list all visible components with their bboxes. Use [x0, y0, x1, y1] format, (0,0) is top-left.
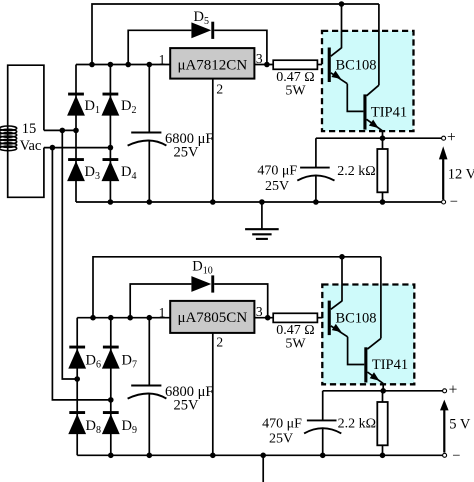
- junction D2 cathode: [108, 62, 114, 68]
- junction D2-D4 midpoint node: [108, 145, 114, 151]
- junction D9 bottom: [108, 453, 114, 459]
- svg-text:+: +: [449, 382, 458, 399]
- wire C4 bottom lead: [322, 428, 324, 456]
- pin label 3 (U1): [256, 51, 263, 66]
- junction R4 bottom: [380, 453, 386, 459]
- wire ground rail (bottom): [77, 454, 444, 456]
- label BC108 (bottom): [335, 310, 376, 326]
- capacitor C4 470uF: [304, 420, 341, 433]
- wire Q1 emitter to Q2 base: [347, 84, 363, 112]
- junction C1 top: [147, 62, 153, 68]
- capacitor C2 470uF: [297, 168, 334, 181]
- svg-text:−: −: [452, 448, 460, 464]
- junction upper tap / long vertical: [60, 128, 66, 134]
- junction lower-bridge AC input (from lower tap): [108, 397, 114, 403]
- wire long vertical to lower bridge AC input 2: [62, 130, 77, 379]
- wire transformer lower tap to bridge node: [44, 147, 111, 149]
- wire Q3 emitter to Q4 base: [348, 337, 365, 365]
- svg-text:1: 1: [159, 52, 166, 67]
- wire D4 branch: [109, 148, 111, 202]
- wire D10 left lead: [130, 284, 191, 318]
- svg-text:3: 3: [256, 304, 263, 319]
- diode D2: [102, 93, 120, 116]
- junction C3 top: [147, 315, 153, 321]
- label 6800 uF 25V: [165, 131, 213, 160]
- resistor R1 0.47 ohm 5W: [273, 60, 317, 69]
- label 6800 uF 25V (bottom): [165, 384, 213, 413]
- wire D10 right lead: [214, 284, 268, 318]
- junction C1 bottom: [147, 199, 153, 205]
- svg-text:μA7805CN: μA7805CN: [177, 310, 247, 326]
- label 15 Vac: [20, 121, 42, 154]
- pin label 1 (U2): [159, 305, 166, 320]
- label 470 uF 25V (bottom): [262, 416, 302, 446]
- resistor R3 0.47 ohm 5W: [273, 313, 317, 322]
- wire D5 left lead: [128, 30, 191, 64]
- svg-text:25V: 25V: [269, 432, 293, 447]
- label TIP41 (top): [371, 104, 407, 120]
- resistor R4 2.2 kohm: [377, 391, 387, 456]
- diode D4: [102, 158, 120, 181]
- svg-text:Vac: Vac: [20, 138, 42, 154]
- wire D8 branch: [76, 379, 78, 455]
- diode D7: [102, 346, 120, 369]
- junction ground tap: [259, 199, 265, 205]
- svg-text:470 μF: 470 μF: [262, 416, 302, 431]
- pin label 1 (U1): [159, 52, 166, 67]
- terminal - (bottom): [443, 448, 461, 464]
- wire R1 to Q1 base: [317, 64, 327, 66]
- diode D1: [67, 93, 85, 116]
- wire transformer upper tap to bridge node: [44, 129, 76, 131]
- svg-text:5 V: 5 V: [449, 416, 471, 432]
- wire long vertical to lower bridge AC input: [52, 148, 110, 400]
- junction Q4 emitter node: [380, 388, 386, 394]
- svg-text:TIP41: TIP41: [372, 357, 408, 373]
- junction C4 bottom: [320, 453, 326, 459]
- label 470 uF 25V: [257, 164, 297, 195]
- svg-text:15: 15: [22, 121, 37, 137]
- transistor Q2 TIP41 (top): [363, 4, 382, 138]
- junction D5 anode tap: [125, 62, 131, 68]
- label BC108 (top): [335, 57, 376, 73]
- label D10: [192, 258, 212, 276]
- wire U1 pin 2 ground lead: [212, 79, 214, 202]
- junction U2 pin2 / ground rail: [210, 453, 216, 459]
- junction U1 output node: [264, 62, 270, 68]
- junction D4 bottom: [108, 199, 114, 205]
- wire U1 pin 3 to R1: [254, 64, 273, 66]
- svg-text:BC108: BC108: [335, 57, 376, 73]
- wire bridge positive rail to regulator pin 1: [76, 64, 170, 66]
- wire top rail: [92, 4, 379, 65]
- label 0.47 ohm 5W: [276, 70, 314, 99]
- transformer T1 winding coil: [0, 126, 17, 151]
- label 2.2 kohm (bottom): [338, 416, 376, 431]
- label TIP41 (bottom): [372, 357, 408, 373]
- svg-text:+: +: [447, 129, 456, 146]
- pin label 2 (U2): [216, 334, 223, 349]
- junction lower-bridge AC input (from upper tap): [74, 376, 80, 382]
- junction U1 pin2 / ground rail: [210, 199, 216, 205]
- svg-text:2: 2: [216, 334, 223, 349]
- junction lower tap / long vertical: [50, 145, 56, 151]
- transformer T1 secondary loop wire: [8, 65, 44, 197]
- regulator U2 uA7805CN: [170, 301, 254, 333]
- pin label 2 (U1): [216, 82, 223, 97]
- svg-text:25V: 25V: [174, 397, 200, 413]
- wire ground stub (bottom): [262, 455, 264, 482]
- svg-text:−: −: [450, 194, 458, 210]
- label D5: [194, 9, 209, 27]
- wire output rail (top): [316, 137, 444, 139]
- junction D7 cathode: [108, 315, 114, 321]
- wire R3 to Q3 base: [317, 317, 327, 319]
- svg-text:TIP41: TIP41: [371, 104, 407, 120]
- terminal + (top): [442, 129, 456, 146]
- transistor Q1 BC108 (top): [328, 4, 348, 84]
- wire U2 pin 3 to R3: [254, 317, 273, 319]
- regulator U1 uA7812CN: [170, 48, 254, 79]
- label D7: [122, 353, 137, 371]
- diode D5: [191, 22, 214, 39]
- wire C2 bottom lead: [315, 175, 317, 202]
- wire output rail (bottom): [323, 390, 445, 392]
- label D6: [86, 353, 101, 371]
- svg-text:2: 2: [216, 82, 223, 97]
- arrow 12 V output: [439, 146, 474, 199]
- booster dashed box (top): [322, 31, 414, 131]
- svg-text:5W: 5W: [285, 84, 306, 99]
- svg-text:25V: 25V: [265, 179, 289, 194]
- booster dashed box (bottom): [322, 285, 414, 385]
- svg-text:25V: 25V: [174, 144, 200, 160]
- wire C4 top lead: [322, 391, 324, 421]
- label D3: [85, 164, 100, 182]
- resistor R2 2.2 kohm: [377, 138, 387, 202]
- wire D6 branch: [76, 318, 78, 379]
- wire top rail (bottom): [93, 257, 381, 318]
- arrow 5 V output: [440, 400, 471, 453]
- diode D8: [68, 411, 86, 434]
- svg-text:2.2 kΩ: 2.2 kΩ: [338, 416, 376, 431]
- junction top-wire tap (bottom): [90, 315, 96, 321]
- label 0.47 ohm 5W (bottom): [276, 323, 314, 352]
- wire ground rail (top): [76, 201, 444, 203]
- svg-text:BC108: BC108: [335, 310, 376, 326]
- junction Q1 collector rail: [339, 1, 345, 7]
- wire C3 leads: [148, 318, 150, 456]
- wire D7 branch: [110, 318, 112, 400]
- svg-text:μA7812CN: μA7812CN: [177, 57, 247, 73]
- terminal - (top): [442, 194, 458, 210]
- wire U2 pin 2 ground lead: [212, 333, 214, 455]
- capacitor C1 6800uF: [128, 133, 167, 146]
- label 2.2 kohm: [337, 164, 375, 179]
- junction R2 bottom: [380, 199, 386, 205]
- label D1: [85, 98, 100, 116]
- capacitor C3 6800uF: [128, 386, 167, 399]
- transistor Q4 TIP41 (bottom): [364, 257, 383, 392]
- svg-text:5W: 5W: [285, 337, 306, 352]
- label D4: [121, 164, 136, 182]
- wire C1 leads: [148, 65, 150, 203]
- wire D5 right lead: [214, 30, 267, 64]
- wire C2 top lead: [315, 138, 317, 167]
- svg-text:470 μF: 470 μF: [257, 164, 297, 179]
- pin label 3 (U2): [256, 304, 263, 319]
- diode D3: [67, 158, 85, 181]
- wire D1 branch: [75, 65, 77, 131]
- wire bridge positive rail to regulator pin 1 (bottom): [77, 317, 170, 319]
- transistor Q3 BC108 (bottom): [328, 257, 348, 337]
- junction C2 bottom: [313, 199, 319, 205]
- junction D10 anode tap: [127, 315, 133, 321]
- terminal + (bottom): [443, 382, 458, 399]
- wire D9 branch: [110, 400, 112, 455]
- label D2: [121, 98, 136, 116]
- junction top-wire tap: [89, 62, 95, 68]
- junction C3 bottom: [147, 453, 153, 459]
- label D9: [122, 418, 137, 436]
- label D8: [86, 418, 101, 436]
- junction U2 output node: [265, 315, 271, 321]
- wire D2 branch: [109, 65, 111, 148]
- junction Q2 emitter node: [380, 135, 386, 141]
- svg-text:1: 1: [159, 305, 166, 320]
- junction D1-D3 midpoint node: [73, 128, 79, 134]
- diode D9: [102, 411, 120, 434]
- svg-text:2.2 kΩ: 2.2 kΩ: [337, 164, 375, 179]
- junction ground tap (bottom): [260, 453, 266, 459]
- ground symbol (top): [245, 202, 279, 239]
- svg-text:12 V: 12 V: [448, 167, 474, 183]
- diode D6: [68, 346, 86, 369]
- junction Q3 collector rail: [339, 254, 345, 260]
- diode D10: [191, 275, 214, 292]
- wire D3 branch: [75, 130, 77, 202]
